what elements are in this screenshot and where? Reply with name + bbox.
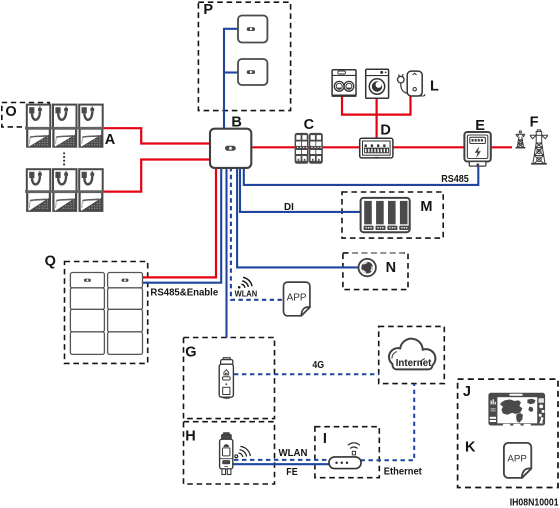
svg-text:DI: DI — [284, 201, 294, 213]
PV module A21 — [27, 192, 50, 211]
svg-text:J: J — [463, 384, 471, 400]
label WLAN (app link) — [235, 290, 258, 299]
label B — [231, 114, 241, 130]
slave inverter P2 — [238, 59, 267, 85]
label 4G — [312, 359, 324, 371]
distribution box D — [360, 138, 393, 158]
PV module A22 — [53, 192, 76, 211]
label N — [386, 260, 396, 276]
svg-text:K: K — [465, 440, 476, 456]
PV unit divider bar 11 — [25, 127, 51, 130]
label WLAN (router link) — [279, 447, 308, 459]
wire blue B to N contactor — [237, 167, 358, 267]
svg-text:IH08N10001: IH08N10001 — [510, 498, 559, 508]
svg-text:E: E — [475, 118, 485, 134]
wire red PV string 2 to inverter B — [103, 160, 212, 192]
svg-text:L: L — [430, 78, 439, 94]
WLAN signal icon — [238, 277, 252, 288]
svg-text:A: A — [105, 132, 116, 148]
breaker C module 1 — [295, 133, 309, 164]
wire blue dashed WLAN dongle H to router I — [234, 459, 329, 461]
PV unit divider bar 23 — [77, 190, 103, 193]
APP document icon (WLAN app) — [284, 282, 310, 316]
battery tower Q1 — [70, 273, 104, 355]
dashed box Internet cloud group — [379, 326, 445, 383]
svg-text:D: D — [380, 123, 390, 139]
breaker C module 2 — [309, 133, 323, 164]
wire blue DI B to M receiver — [240, 167, 362, 212]
wifi waves of dongle H — [235, 446, 251, 457]
label Q — [45, 254, 56, 270]
label J — [463, 384, 471, 400]
label D — [380, 123, 390, 139]
svg-text:H: H — [185, 428, 195, 444]
wire blue battery RS485-Enable B to Q — [143, 167, 222, 283]
power meter E — [464, 132, 490, 166]
wire red PV string 1 to inverter B — [103, 128, 212, 143]
ripple control receiver M — [361, 198, 410, 232]
svg-text:RS485: RS485 — [441, 173, 469, 185]
label IH08N10001 — [510, 498, 559, 508]
label RS485 (meter link) — [441, 173, 469, 185]
wire red battery power B to Q — [143, 167, 217, 277]
PV unit divider bar 12 — [51, 127, 77, 130]
svg-text:APP: APP — [287, 293, 307, 304]
optimizer unit O12 — [53, 105, 77, 129]
PV module A12 — [53, 129, 76, 147]
svg-text:APP: APP — [507, 453, 527, 464]
label RS485&Enable — [150, 287, 218, 299]
label O — [5, 104, 16, 120]
svg-text:WLAN: WLAN — [235, 290, 258, 299]
svg-text:B: B — [231, 114, 241, 130]
inverter B — [210, 129, 251, 168]
wire blue P inverters cascade to B — [223, 29, 239, 130]
label F — [530, 114, 539, 130]
label I — [323, 431, 327, 447]
label L — [430, 78, 439, 94]
smart dongle 4G (G) — [219, 358, 233, 399]
svg-text:P: P — [203, 2, 213, 18]
svg-text:G: G — [185, 344, 196, 360]
svg-text:FE: FE — [286, 466, 297, 478]
label G — [185, 344, 196, 360]
wire blue RS485 B to meter E — [244, 166, 478, 185]
PV module A23 — [80, 192, 103, 211]
wire red appliances bus to D — [342, 96, 411, 139]
label H — [185, 428, 195, 444]
svg-text:F: F — [530, 114, 539, 130]
svg-text:I: I — [323, 431, 327, 447]
PV module A11 — [27, 129, 50, 147]
dashed box O (optimizer group) — [2, 103, 49, 127]
PV module A13 — [80, 129, 103, 147]
svg-text:WLAN: WLAN — [279, 447, 308, 459]
ellipsis dots between PV rows — [63, 152, 65, 165]
dashed box G (4G dongle group) — [184, 338, 275, 419]
wire blue B to dongle G — [225, 167, 227, 338]
transmission tower small (grid F) — [516, 131, 526, 148]
label FE — [286, 466, 297, 478]
PV unit divider bar 21 — [25, 190, 51, 193]
svg-text:RS485&Enable: RS485&Enable — [150, 287, 218, 299]
transmission tower large (grid F) — [530, 130, 548, 164]
water heater with plug (load) — [398, 71, 426, 96]
svg-text:M: M — [420, 199, 432, 215]
dashed box I (router group) — [315, 427, 379, 478]
Internet cloud — [389, 339, 435, 370]
APP document icon K — [504, 443, 531, 478]
PV unit divider bar 22 — [51, 190, 77, 193]
svg-text:Ethernet: Ethernet — [384, 465, 422, 477]
svg-text:N: N — [386, 260, 396, 276]
slave inverter P1 — [238, 16, 267, 43]
dashed box N (heat pump contactor group) — [343, 253, 408, 290]
label A — [105, 132, 116, 148]
PV unit divider bar 13 — [77, 127, 103, 130]
wire blue FE dongle H to router I — [233, 463, 331, 465]
svg-text:4G: 4G — [312, 359, 324, 371]
dashed box J/K (management system group) — [458, 379, 558, 487]
contactor knob N — [359, 259, 376, 276]
label C — [304, 117, 315, 133]
optimizer unit O21 — [27, 169, 51, 191]
monitoring screen J — [488, 393, 545, 426]
dishwasher (load) — [332, 70, 357, 97]
optimizer unit O23 — [79, 169, 103, 191]
label K — [465, 440, 476, 456]
label E — [475, 118, 485, 134]
label P — [203, 2, 213, 18]
label DI — [284, 201, 294, 213]
optimizer unit O22 — [53, 169, 77, 191]
dashed box Q (battery group) — [65, 262, 148, 364]
wire blue dashed 4G dongle G to Internet — [234, 373, 379, 375]
dashed box P (slave inverters group) — [198, 2, 290, 110]
wire blue dashed Ethernet router I to Internet — [361, 384, 415, 460]
optimizer unit O11 — [27, 105, 51, 129]
svg-text:C: C — [304, 117, 315, 133]
wire red AC bus B to C to D to E to F — [251, 146, 513, 148]
label Ethernet — [384, 465, 422, 477]
optimizer unit O13 — [79, 105, 103, 129]
battery tower Q2 — [108, 273, 143, 355]
svg-text:Internet: Internet — [396, 357, 432, 369]
dashed box M (ripple control receiver group) — [342, 192, 443, 238]
svg-text:O: O — [5, 104, 16, 120]
washing machine (load) — [366, 69, 389, 98]
router I — [329, 443, 361, 469]
svg-text:Q: Q — [45, 254, 56, 270]
wire blue dashed WLAN B to APP — [231, 167, 283, 300]
dashed box H (WLAN-FE dongle group) — [184, 422, 275, 484]
label M — [420, 199, 432, 215]
smart dongle WLAN-FE (H) — [220, 433, 233, 475]
